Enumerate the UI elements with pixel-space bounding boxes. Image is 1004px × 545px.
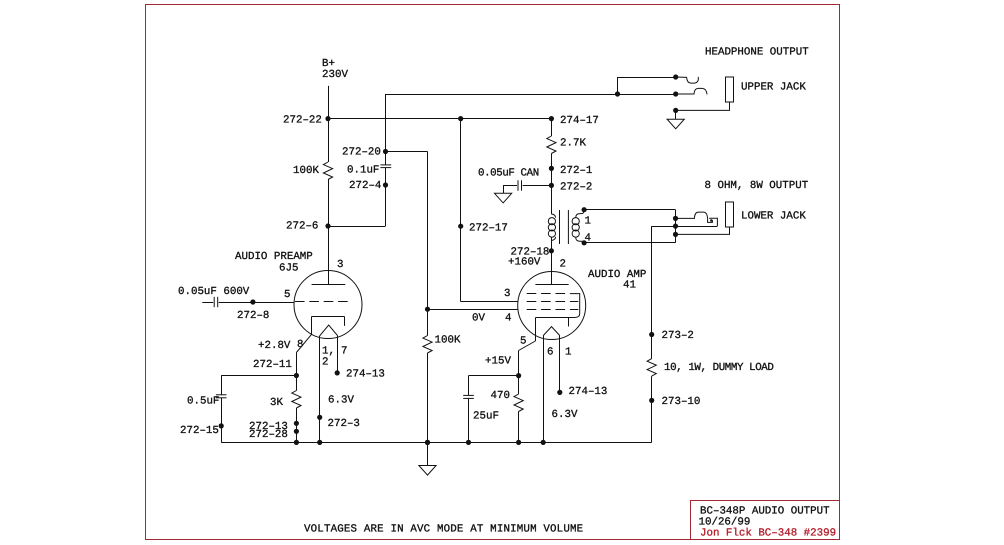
svg-text:272–3: 272–3 bbox=[328, 418, 360, 430]
svg-text:+15V: +15V bbox=[485, 356, 511, 368]
wire pin5 down to R5 (through +15V node) bbox=[518, 351, 520, 395]
svg-text:5: 5 bbox=[520, 336, 526, 348]
junction V2 grid bbox=[425, 307, 430, 312]
wire stem to chassis ground bbox=[427, 442, 429, 465]
svg-text:3: 3 bbox=[504, 288, 510, 300]
lower jack tip spring contact bbox=[676, 212, 713, 222]
svg-text:1: 1 bbox=[585, 216, 591, 228]
junction +15V node bbox=[516, 373, 521, 378]
wire lower jack sleeve to contact 3 bbox=[676, 227, 730, 234]
svg-text:272–20: 272–20 bbox=[342, 147, 381, 159]
wire 272-17 rail down bbox=[460, 119, 462, 302]
resistor R6 10 ohm dummy load bbox=[647, 359, 656, 377]
wire C1 to 272-4 down to corner bbox=[385, 168, 387, 226]
svg-text:VOLTAGES ARE IN AVC MODE AT MI: VOLTAGES ARE IN AVC MODE AT MINIMUM VOLU… bbox=[304, 524, 583, 536]
resistor R2 2.7K bbox=[547, 136, 556, 154]
tube V1 plate bbox=[312, 284, 346, 286]
svg-text:273–2: 273–2 bbox=[662, 330, 694, 342]
terminal dot T1 secondary 1 bbox=[582, 207, 587, 212]
junction 272-6 bbox=[325, 223, 330, 228]
svg-text:25uF: 25uF bbox=[473, 411, 499, 423]
svg-text:4: 4 bbox=[505, 313, 511, 325]
svg-text:7: 7 bbox=[341, 346, 347, 358]
upper jack tip spring contact bbox=[676, 77, 699, 83]
wire lower jack contact stack vertical bbox=[675, 210, 677, 243]
wire upper jack tip loop vertical bbox=[617, 77, 619, 94]
terminal 274-13 V2 bbox=[557, 390, 562, 395]
svg-text:8: 8 bbox=[297, 339, 303, 351]
svg-text:6: 6 bbox=[547, 347, 553, 359]
junction tip loop at bus bbox=[615, 91, 620, 96]
wire down to C4 bbox=[221, 376, 223, 395]
svg-text:272–8: 272–8 bbox=[237, 310, 269, 322]
tube V2 screen grid (dashed) bbox=[527, 293, 570, 295]
tube V1 cathode bracket bbox=[312, 316, 345, 318]
wire T1 terminal 4 to lower jack bbox=[584, 242, 675, 244]
wire C3 right plate to 272-2 bbox=[523, 185, 552, 187]
junction 272-8 bbox=[250, 299, 255, 304]
svg-text:274–13: 274–13 bbox=[569, 386, 608, 398]
svg-text:0.05uF 600V: 0.05uF 600V bbox=[178, 286, 250, 298]
title block box bbox=[691, 501, 840, 540]
svg-text:230V: 230V bbox=[322, 69, 348, 81]
upper jack ring spring contact bbox=[676, 88, 707, 94]
junction 272-13 bbox=[294, 421, 299, 426]
svg-text:470: 470 bbox=[491, 390, 510, 402]
svg-text:UPPER JACK: UPPER JACK bbox=[741, 82, 806, 94]
svg-text:0V: 0V bbox=[472, 313, 485, 325]
wire R3 to ground rail bbox=[427, 353, 429, 442]
svg-text:2: 2 bbox=[560, 259, 566, 271]
svg-text:Jon Flck BC–348 #2399: Jon Flck BC–348 #2399 bbox=[700, 527, 836, 539]
junction pin6 at rail bbox=[541, 440, 546, 445]
wire headphone bus horizontal bbox=[386, 94, 676, 96]
junction R4 at ground rail bbox=[294, 440, 299, 445]
capacitor C3 0.05uF CAN plates bbox=[517, 180, 519, 190]
tube V2 41 envelope bbox=[518, 272, 586, 340]
tube V2 grid row pin4 (dashed) bbox=[527, 309, 579, 311]
wire V1 heater pin7 stub bbox=[337, 336, 339, 373]
svg-text:3K: 3K bbox=[270, 397, 283, 409]
wire C2 to V1 grid pin 5 bbox=[219, 302, 295, 304]
contact dot upper jack ring bbox=[673, 91, 678, 96]
svg-text:+160V: +160V bbox=[508, 257, 541, 269]
tube V1 pin 8 lead diagonal bbox=[296, 334, 311, 352]
tube V2 grid row pin3 (dashed) bbox=[527, 301, 579, 303]
tube V2 cathode bracket bbox=[536, 317, 576, 319]
wire B+ rail down to R1 bbox=[328, 86, 330, 162]
junction at x460 rail bbox=[458, 116, 463, 121]
svg-text:0.5uF: 0.5uF bbox=[187, 396, 219, 408]
wire headphone feed down to C1 bbox=[385, 94, 387, 165]
junction 272-4 bbox=[383, 182, 388, 187]
wire +15V node left to C5 bbox=[469, 375, 519, 377]
svg-text:1: 1 bbox=[565, 347, 571, 359]
tube V1 grid (dashed) bbox=[295, 301, 350, 303]
capacitor C1 0.1uF plates bbox=[380, 164, 391, 166]
schematic border frame bbox=[146, 5, 840, 540]
junction 272-20 bbox=[383, 149, 388, 154]
wire input to C2 bbox=[202, 302, 213, 304]
wire pin8 down to R4 (through 272-11) bbox=[296, 353, 298, 391]
ground symbol CAN bbox=[495, 193, 512, 203]
wire upper jack sleeve to ground bbox=[676, 102, 730, 110]
ground symbol main bbox=[419, 466, 436, 476]
tube V1 heater filament bbox=[320, 325, 338, 336]
wire ground rail bbox=[221, 442, 652, 444]
wire stub to CAN ground bbox=[503, 185, 505, 193]
wire R6 to ground rail corner bbox=[651, 376, 653, 442]
junction heater at rail bbox=[317, 440, 322, 445]
wire 272-18 down to V2 plate pin 2 bbox=[551, 251, 553, 285]
resistor R1 100K plate load bbox=[323, 162, 332, 180]
wire R1 to tube V1 plate (through 272-6) bbox=[328, 180, 330, 285]
junction 274-17 top bbox=[549, 116, 554, 121]
tube V1 6J5 envelope bbox=[294, 271, 362, 339]
svg-text:41: 41 bbox=[623, 280, 636, 292]
wire C3 left plate to ground bbox=[503, 185, 517, 187]
svg-text:272–28: 272–28 bbox=[249, 429, 288, 441]
svg-text:10, 1W, DUMMY LOAD: 10, 1W, DUMMY LOAD bbox=[664, 362, 773, 374]
svg-text:AUDIO AMP: AUDIO AMP bbox=[588, 269, 646, 281]
svg-text:100K: 100K bbox=[293, 165, 319, 177]
junction 273-2 bbox=[649, 332, 654, 337]
wire V2 heater pin1 stub bbox=[559, 336, 561, 393]
transformer T1 secondary coil bbox=[572, 214, 581, 242]
transformer T1 core bbox=[559, 210, 561, 244]
wire R4 to ground rail bbox=[296, 408, 298, 442]
svg-text:273–10: 273–10 bbox=[662, 396, 701, 408]
wire primary bottom to 272-18 bbox=[551, 237, 553, 251]
wire 274-17 to R2 bbox=[551, 119, 553, 136]
upper jack body bbox=[726, 77, 734, 102]
svg-text:272–11: 272–11 bbox=[253, 359, 292, 371]
wire dummy load rail down (through 273-2) bbox=[651, 226, 653, 359]
junction 272-1 bbox=[549, 166, 554, 171]
contact dot lower jack 1 bbox=[673, 216, 678, 221]
wire V2 heater pin6 down to rail bbox=[543, 336, 545, 443]
contact dot lower jack 3 bbox=[673, 232, 678, 237]
junction 272-15 bbox=[219, 423, 224, 428]
svg-text:6J5: 6J5 bbox=[279, 262, 298, 274]
wire R5 to ground rail bbox=[518, 412, 520, 443]
svg-text:274–13: 274–13 bbox=[346, 369, 385, 381]
wire V1 heater pin1,2 down to rail bbox=[319, 336, 321, 443]
svg-text:AUDIO PREAMP: AUDIO PREAMP bbox=[235, 251, 313, 263]
junction 273-10 bbox=[649, 398, 654, 403]
wire R2 down through 272-1 272-2 to transformer bbox=[551, 154, 553, 215]
svg-text:5: 5 bbox=[284, 289, 290, 301]
junction ground symbol at rail bbox=[425, 440, 430, 445]
svg-text:3: 3 bbox=[337, 259, 343, 271]
wire C5 to ground rail bbox=[468, 398, 470, 442]
resistor R5 470 cathode bbox=[514, 394, 523, 412]
svg-text:100K: 100K bbox=[435, 335, 461, 347]
wire 272-20 right to grid rail bbox=[386, 151, 428, 153]
wire grid junction to V2 pin 4 bbox=[428, 309, 519, 311]
svg-text:272–4: 272–4 bbox=[349, 180, 381, 192]
svg-text:2: 2 bbox=[322, 357, 328, 369]
ground symbol headphone jack bbox=[667, 119, 684, 129]
terminal dot T1 secondary 4 bbox=[582, 240, 587, 245]
capacitor C5 25uF plates bbox=[463, 394, 474, 396]
tube V2 screen tie hook bbox=[570, 294, 580, 318]
wire C4 to ground rail (through 272-15) bbox=[221, 398, 223, 443]
svg-text:272–6: 272–6 bbox=[286, 221, 318, 233]
contact dot lower jack 2 bbox=[673, 224, 678, 229]
wire junction down to R3 bbox=[427, 309, 429, 335]
wire lower jack contact 2 to dummy load rail bbox=[652, 226, 718, 228]
wire 272-11 left to C4 branch bbox=[221, 375, 296, 377]
wire stub to headphone ground bbox=[675, 110, 677, 119]
junction C5 at ground rail bbox=[466, 440, 471, 445]
contact dot upper jack tip bbox=[673, 74, 678, 79]
svg-text:LOWER JACK: LOWER JACK bbox=[741, 211, 806, 223]
tube V2 plate bbox=[535, 284, 568, 286]
resistor R4 3K cathode bbox=[292, 391, 301, 409]
svg-text:+2.8V: +2.8V bbox=[258, 340, 291, 352]
junction 272-3 bbox=[317, 415, 322, 420]
tube V2 pin 5 lead diagonal bbox=[519, 341, 536, 351]
svg-text:6.3V: 6.3V bbox=[328, 395, 354, 407]
svg-text:272–15: 272–15 bbox=[180, 425, 219, 437]
junction 272-18 bbox=[549, 248, 554, 253]
lower jack body bbox=[726, 202, 734, 227]
transformer T1 primary coil bbox=[548, 214, 555, 241]
wire grid rail down to V2 pin4 bbox=[427, 152, 429, 310]
lower jack break contact hinge bbox=[710, 219, 712, 221]
svg-text:HEADPHONE OUTPUT: HEADPHONE OUTPUT bbox=[705, 47, 809, 59]
wire 272-22 to 274-17 horizontal bbox=[328, 118, 551, 120]
wire T1 terminal 1 to lower jack bbox=[584, 209, 675, 211]
junction 272-11 bbox=[294, 373, 299, 378]
junction 272-28 bbox=[294, 429, 299, 434]
svg-text:272–17: 272–17 bbox=[469, 223, 508, 235]
wire down to C5 bbox=[468, 376, 470, 396]
svg-text:2.7K: 2.7K bbox=[560, 138, 586, 150]
junction 272-2 bbox=[549, 183, 554, 188]
terminal 274-13 V1 bbox=[335, 370, 340, 375]
svg-text:6.3V: 6.3V bbox=[552, 409, 578, 421]
svg-text:0.1uF: 0.1uF bbox=[347, 165, 379, 177]
wire 272-6 to 272-4 branch horizontal bbox=[328, 226, 386, 228]
junction 272-22 bbox=[325, 116, 330, 121]
junction R3 at ground rail bbox=[425, 440, 430, 445]
junction 272-17 bbox=[458, 224, 463, 229]
capacitor C2 0.05uF input plates bbox=[213, 297, 215, 307]
svg-text:272–2: 272–2 bbox=[560, 182, 592, 194]
svg-text:0.05uF CAN: 0.05uF CAN bbox=[478, 168, 539, 180]
wire x460 rail to V2 pin 3 bbox=[461, 301, 518, 303]
capacitor C4 0.5uF plates bbox=[216, 394, 227, 396]
resistor R3 100K grid leak bbox=[423, 336, 432, 354]
svg-text:8 OHM, 8W OUTPUT: 8 OHM, 8W OUTPUT bbox=[705, 180, 809, 192]
junction upper jack ground bbox=[673, 108, 678, 113]
lower jack break contact bar to wire 2 bbox=[709, 218, 717, 226]
junction R5 at ground rail bbox=[516, 440, 521, 445]
tube V2 heater filament bbox=[543, 327, 560, 336]
svg-text:272–22: 272–22 bbox=[283, 115, 322, 127]
wire upper jack tip loop top bbox=[618, 77, 676, 79]
svg-text:272–1: 272–1 bbox=[560, 165, 592, 177]
svg-text:274–17: 274–17 bbox=[560, 115, 599, 127]
